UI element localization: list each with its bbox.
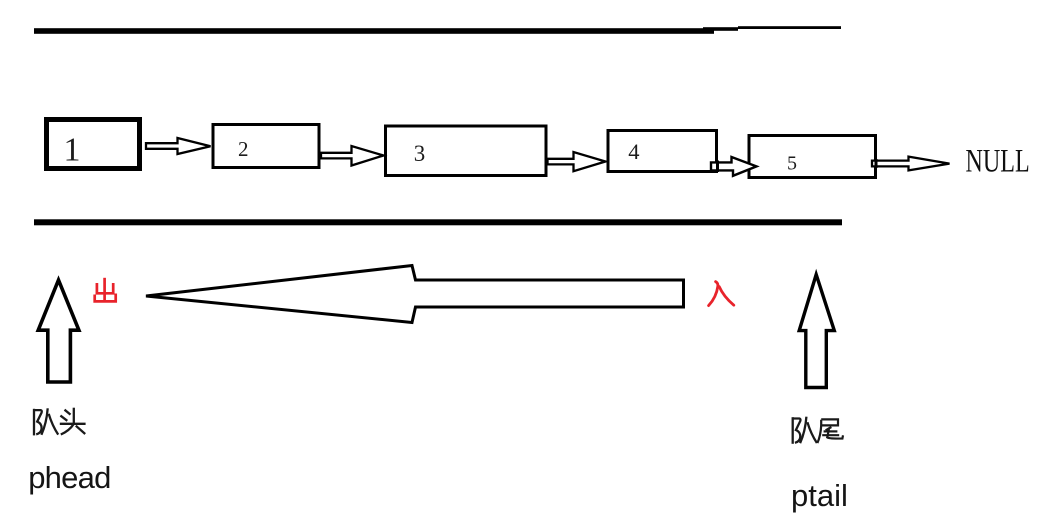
enqueue-side up arrow (ptail pointer) [799, 275, 834, 388]
radical 队 (queue) of 队头 [34, 408, 58, 435]
svg-text:4: 4 [628, 139, 639, 164]
second boundary line [34, 219, 842, 225]
arrow 1 to 2 [146, 138, 211, 154]
arrow 3 to 4 [548, 152, 606, 171]
arrow 4 to 5 [711, 157, 757, 176]
node box 5 [749, 136, 876, 178]
radical 队 (queue) of 队尾 [793, 417, 817, 444]
big dequeue arrow (points left) [146, 266, 684, 323]
box4 right border patch over arrow tail [716, 161, 719, 173]
character 头 (head) [60, 408, 86, 435]
svg-text:5: 5 [787, 153, 797, 175]
node box 1 [47, 120, 140, 169]
arrow 2 to 3 [321, 146, 384, 166]
box5 right border patch over arrow tail [875, 159, 878, 168]
red label 出 (out) [95, 278, 116, 302]
node box 3 [386, 126, 547, 176]
dequeue-side up arrow (phead pointer) [38, 280, 79, 382]
svg-text:NULL: NULL [966, 143, 1030, 180]
svg-text:ptail: ptail [791, 478, 848, 513]
top boundary line [34, 26, 841, 34]
character 尾 (tail) [817, 419, 843, 443]
svg-text:phead: phead [28, 460, 110, 495]
red label 入 (in) [709, 282, 734, 306]
svg-text:1: 1 [64, 132, 81, 169]
svg-text:2: 2 [238, 137, 249, 161]
node box 2 [213, 125, 319, 168]
node box 4 [608, 131, 717, 172]
svg-text:3: 3 [414, 141, 426, 166]
arrow 5 to NULL [872, 157, 950, 171]
